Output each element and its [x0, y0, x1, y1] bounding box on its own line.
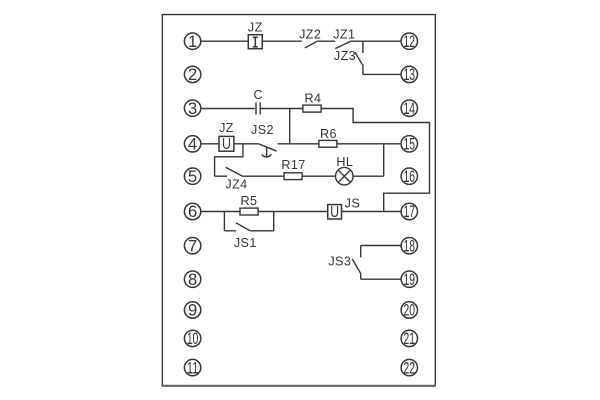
wire [321, 109, 429, 212]
wire [351, 40, 402, 42]
coil JZ (voltage coil U) [219, 136, 234, 151]
svg-text:R6: R6 [320, 127, 337, 141]
svg-text:R5: R5 [241, 194, 258, 208]
contact JS3 [352, 246, 361, 280]
terminal 20 [401, 302, 417, 318]
svg-text:15: 15 [404, 136, 416, 154]
capacitor C [256, 102, 260, 114]
resistor R17 [284, 173, 302, 180]
svg-text:3: 3 [188, 100, 197, 118]
contact JZ1 [335, 41, 350, 48]
wire [201, 108, 255, 110]
terminal 10 [184, 330, 200, 346]
svg-text:4: 4 [188, 136, 197, 154]
terminal 7 [184, 238, 200, 254]
svg-text:12: 12 [404, 33, 416, 51]
wire [201, 40, 249, 42]
svg-text:2: 2 [188, 66, 197, 84]
terminal 6 [184, 203, 200, 219]
wire [361, 245, 401, 247]
wire [215, 175, 227, 177]
terminal 2 [184, 66, 200, 82]
wire [342, 211, 402, 213]
wire [278, 143, 319, 145]
coil JS (voltage coil U) [328, 205, 342, 219]
svg-text:10: 10 [187, 330, 199, 348]
wire [224, 230, 236, 232]
wire (right drop of R5 bypass) [273, 212, 275, 231]
svg-text:R4: R4 [305, 91, 322, 105]
svg-text:JS2: JS2 [251, 123, 274, 137]
svg-text:13: 13 [404, 66, 416, 84]
svg-text:JS: JS [345, 197, 361, 211]
contact JS1 [236, 223, 250, 231]
terminal 19 [401, 271, 417, 287]
svg-text:JZ2: JZ2 [299, 27, 321, 41]
svg-text:11: 11 [187, 359, 199, 377]
svg-text:8: 8 [188, 271, 197, 289]
contact JZ3 [355, 41, 363, 74]
terminal 16 [401, 168, 417, 184]
svg-text:5: 5 [188, 168, 197, 186]
wire [317, 40, 335, 42]
contact JS2 (time-delay) [259, 144, 277, 157]
wire (node below C) [289, 109, 291, 144]
pin number serif feet [188, 46, 415, 372]
terminal 21 [401, 330, 417, 346]
svg-text:21: 21 [404, 330, 416, 348]
wire [234, 143, 259, 145]
terminal 15 [401, 136, 417, 152]
terminal 22 [401, 359, 417, 375]
svg-text:U: U [330, 204, 339, 221]
wire [262, 40, 301, 42]
wire [353, 175, 384, 177]
terminal 3 [184, 100, 200, 116]
svg-text:19: 19 [404, 271, 416, 289]
svg-text:18: 18 [404, 237, 416, 255]
contact JZ4 [226, 167, 242, 176]
svg-text:R17: R17 [281, 158, 305, 172]
svg-text:6: 6 [188, 203, 197, 221]
wire [201, 143, 219, 145]
terminal 14 [401, 100, 417, 116]
terminal 12 [401, 33, 417, 49]
resistor R5 [240, 208, 258, 215]
svg-text:22: 22 [404, 359, 416, 377]
wire [201, 211, 240, 213]
svg-text:16: 16 [404, 168, 416, 186]
svg-text:JZ3: JZ3 [334, 49, 356, 63]
terminal 11 [184, 359, 200, 375]
terminal 9 [184, 302, 200, 318]
wire [250, 230, 273, 232]
wire (junction to HL) [383, 144, 385, 176]
svg-text:14: 14 [404, 100, 416, 118]
terminal 18 [401, 238, 417, 254]
terminal 13 [401, 66, 417, 82]
wire (step down to JZ4) [215, 144, 243, 176]
svg-text:U: U [222, 136, 231, 153]
wire [337, 143, 401, 145]
svg-text:JZ4: JZ4 [225, 177, 247, 191]
svg-text:1: 1 [188, 33, 197, 51]
terminal 17 [401, 203, 417, 219]
terminal 8 [184, 271, 200, 287]
svg-text:JZ: JZ [219, 121, 234, 135]
wire [260, 108, 303, 110]
svg-text:C: C [254, 88, 264, 102]
terminal 5 [184, 168, 200, 184]
resistor R4 [303, 105, 321, 112]
svg-text:17: 17 [404, 203, 416, 221]
svg-text:JS1: JS1 [234, 236, 257, 250]
wire [361, 278, 401, 280]
svg-text:20: 20 [404, 302, 416, 320]
terminal 1 [184, 33, 200, 49]
svg-text:7: 7 [188, 237, 197, 255]
svg-text:JZ: JZ [248, 21, 263, 35]
svg-text:JZ1: JZ1 [333, 27, 355, 41]
lamp HL [336, 167, 354, 185]
svg-text:JS3: JS3 [328, 254, 351, 268]
terminal 4 [184, 136, 200, 152]
coil JZ (current coil I) [248, 35, 262, 49]
svg-text:9: 9 [188, 302, 197, 320]
wire [242, 175, 284, 177]
wire [258, 211, 328, 213]
wire [363, 73, 401, 75]
wire (left drop of R5 bypass) [223, 212, 225, 231]
resistor R6 [319, 140, 337, 147]
contact JZ2 [305, 41, 317, 48]
svg-text:HL: HL [336, 155, 353, 169]
wire [302, 175, 335, 177]
